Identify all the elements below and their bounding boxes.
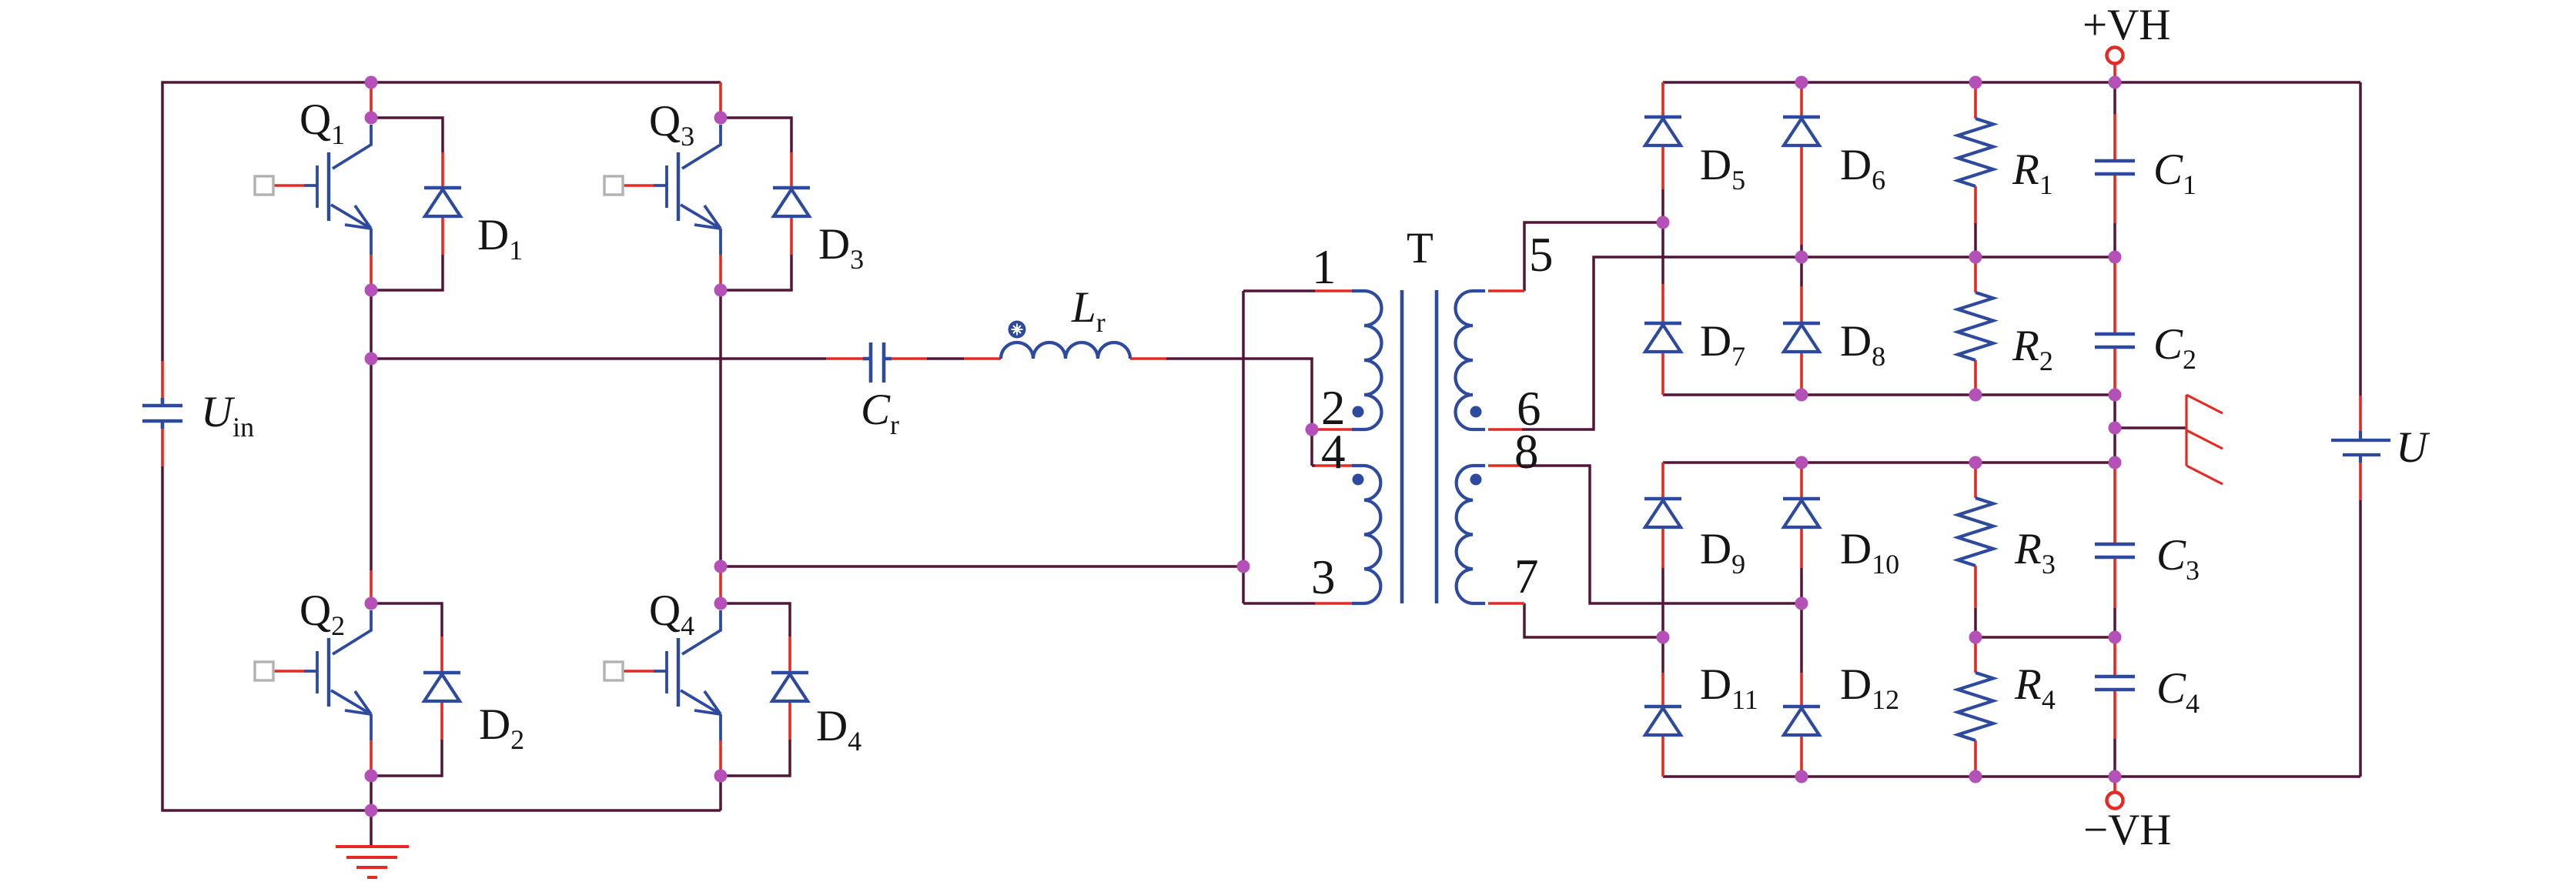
svg-text:D2: D2 (479, 700, 524, 755)
svg-text:Uin: Uin (201, 388, 254, 443)
svg-text:4: 4 (1321, 425, 1346, 479)
svg-text:5: 5 (1529, 228, 1554, 282)
svg-text:U: U (2396, 423, 2430, 472)
svg-text:D1: D1 (477, 211, 523, 266)
svg-text:C4: C4 (2156, 664, 2200, 719)
svg-text:D10: D10 (1840, 525, 1899, 580)
svg-text:Lr: Lr (1071, 283, 1106, 338)
svg-text:D6: D6 (1840, 141, 1885, 195)
svg-text:D9: D9 (1700, 525, 1745, 580)
svg-text:Q2: Q2 (299, 586, 345, 641)
svg-text:−VH: −VH (2083, 806, 2171, 854)
svg-text:R4: R4 (2014, 660, 2056, 715)
svg-text:R3: R3 (2014, 525, 2056, 580)
svg-text:Q3: Q3 (649, 97, 694, 152)
svg-text:1: 1 (1312, 240, 1337, 294)
svg-text:Cr: Cr (861, 386, 899, 440)
svg-text:C3: C3 (2156, 531, 2200, 586)
svg-text:C2: C2 (2153, 320, 2196, 375)
svg-text:D8: D8 (1840, 317, 1885, 372)
svg-text:T: T (1407, 224, 1434, 272)
svg-text:3: 3 (1311, 550, 1336, 604)
svg-text:D5: D5 (1700, 141, 1745, 195)
svg-text:C1: C1 (2153, 145, 2196, 200)
svg-text:Q4: Q4 (649, 586, 694, 641)
svg-text:D12: D12 (1840, 660, 1899, 715)
svg-text:Q1: Q1 (299, 95, 345, 150)
svg-text:D4: D4 (816, 702, 861, 757)
svg-text:7: 7 (1514, 550, 1539, 603)
svg-text:D3: D3 (818, 220, 864, 275)
svg-text:R2: R2 (2012, 322, 2053, 376)
svg-text:D7: D7 (1700, 317, 1745, 372)
svg-text:8: 8 (1514, 425, 1539, 479)
svg-text:+VH: +VH (2083, 1, 2170, 49)
svg-text:R1: R1 (2012, 145, 2053, 200)
svg-text:D11: D11 (1700, 660, 1758, 715)
